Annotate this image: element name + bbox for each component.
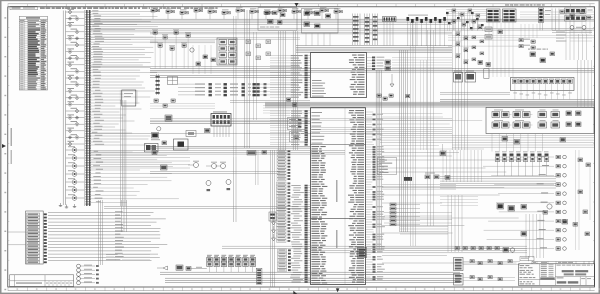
lamp chart table (19, 16, 47, 90)
border zone ticks top (8, 4, 590, 7)
ladder group 2 (365, 14, 370, 46)
vertical bus center2 (400, 50, 408, 232)
power box output drops (492, 134, 542, 152)
left border entry wires bottom (8, 232, 26, 245)
relay bank 2x4 (217, 38, 237, 65)
vertical bundle right upper (446, 10, 513, 151)
block F mid fillers (150, 99, 310, 113)
bus band below upper ECM (265, 93, 594, 108)
ground symbols below harness (59, 203, 76, 208)
left margin vertical note (11, 128, 12, 164)
long verticals center (411, 22, 434, 246)
vertical bundle left-center (121, 100, 126, 206)
vertical ladder connector right (539, 8, 552, 31)
ground triangles left of list (272, 218, 276, 241)
revision table (10, 275, 74, 287)
connector string F1 (156, 74, 160, 95)
ladder group 1 (353, 14, 361, 46)
far right small items (576, 150, 591, 250)
mid-right label block (378, 158, 397, 175)
right upper sensor cluster (452, 9, 480, 30)
cluster F right (287, 98, 308, 142)
top right small boxes (485, 27, 503, 39)
center fold marker bottom (293, 291, 297, 294)
small box column mid-right (390, 203, 420, 226)
border zone numbers left (4, 8, 9, 290)
left wire lattice (440, 150, 556, 188)
key switch cluster (302, 9, 339, 46)
ECM right outside stubs (366, 112, 385, 280)
left connector cell column bottom (278, 249, 291, 272)
lower mid bus lines (91, 67, 595, 72)
bottom solenoid row (207, 255, 256, 272)
connector diamonds column (66, 9, 85, 146)
left-mid small components F (151, 115, 172, 140)
right mid comps row2 (497, 204, 578, 237)
hanging ground sensor right (390, 74, 394, 87)
mid area boxes (152, 151, 267, 171)
border zone ticks bottom (8, 287, 600, 291)
icon box F (174, 139, 189, 150)
mid area wires (90, 151, 345, 209)
ECM outgoing wires right (382, 60, 525, 263)
left connector cell column upper (277, 150, 290, 181)
below power box comps (502, 137, 566, 145)
fuse row (407, 15, 446, 46)
bottom sensor group 2 (454, 274, 516, 286)
relay coil column (66, 146, 85, 200)
note text line (40, 7, 218, 8)
ECM upper box right pin text (349, 55, 365, 95)
pin cluster below J3 (377, 94, 410, 100)
block F bus lines (90, 76, 452, 149)
bottom connector grid (256, 268, 262, 284)
center vertical pair top (234, 10, 257, 157)
border zone numbers right (593, 8, 595, 280)
right connector circle column (483, 155, 566, 250)
connector bank D2 (503, 9, 517, 22)
vertical bus center (376, 70, 381, 250)
left connector cell column lower (277, 182, 291, 242)
note reference box (10, 6, 38, 9)
drawing number top right (505, 4, 509, 5)
grid box F2 (168, 77, 178, 85)
relay top center (145, 141, 167, 152)
terminal strip top (383, 17, 397, 46)
bottom sensor group 1 (454, 258, 521, 271)
mid band extra wires (150, 119, 452, 132)
title block main (519, 264, 595, 286)
center fold marker left (2, 144, 6, 148)
relay pair boxes above strip (454, 71, 476, 82)
controller box A1 (120, 90, 138, 106)
bottom bus lines (160, 272, 460, 282)
mid verticals (234, 150, 453, 287)
right edge verticals upper (578, 34, 592, 108)
ladder group 3 (373, 14, 378, 46)
mid motor circles (188, 161, 231, 192)
right edge wires top (448, 9, 594, 61)
injector solenoid row (495, 151, 549, 176)
right paired connectors (448, 24, 537, 49)
title block header strip (532, 261, 594, 264)
ECM upper-left outside rows (270, 55, 311, 99)
connector bank D1 (487, 9, 501, 22)
vertical bundle F right (279, 31, 298, 150)
solenoid pair cluster (190, 48, 216, 66)
mid lattice connector (382, 144, 456, 189)
connector strip header (511, 78, 575, 91)
center fold marker top (295, 3, 299, 7)
left connector block (26, 211, 47, 264)
ECM lower box (311, 108, 366, 285)
diagnostic connector pair (269, 212, 276, 221)
title block feed lines (520, 256, 534, 261)
pin label rows with connectors (178, 83, 296, 96)
ECM lower left pin text (312, 112, 328, 283)
ECM lower-left outside rows upper (270, 110, 308, 145)
top relay row (151, 7, 342, 19)
block D extra comps (446, 10, 591, 64)
right horizontal bus band (440, 100, 594, 102)
long wires from left border (48, 211, 167, 260)
bottom left text rows (106, 254, 150, 260)
relay J3 cluster right of ECM (367, 57, 453, 71)
wire rows right of bus lower (91, 151, 179, 203)
small relay row right (478, 61, 491, 79)
mid cluster right of relays (246, 40, 271, 60)
bottom mid-right wire rows (222, 246, 527, 253)
ECM upper box (311, 53, 367, 98)
ECM lower right pin text upper half (348, 110, 364, 283)
ECM left outside wire rows (290, 185, 310, 283)
fuse panel block (211, 111, 231, 137)
power dist box (486, 108, 594, 134)
lower-left sensor circles (77, 264, 99, 285)
small box below fuse panel (186, 129, 210, 137)
misc long wires right half (380, 136, 594, 148)
harness vertical rail (63, 11, 65, 206)
strip fanout wires (513, 91, 571, 100)
block D mid cluster (472, 36, 555, 63)
lower mid connecting wires (99, 200, 127, 265)
wire rows right of bus upper (91, 10, 158, 72)
wire rows right of bus middle (91, 75, 155, 145)
verticals to title area (526, 214, 544, 258)
ECM upper box bottom-left rows (312, 80, 326, 97)
left mid component cluster 1 (91, 29, 301, 74)
top horizontal bus (91, 19, 595, 34)
mid horizontal bus block C (296, 46, 452, 53)
top right box enclosure (258, 8, 297, 31)
right top cell rows (556, 8, 593, 42)
bottom right lattice (400, 195, 478, 252)
bottom left of solenoids (157, 265, 207, 270)
J2 connector dark (358, 248, 367, 258)
main wire bus vertical (84, 10, 91, 206)
